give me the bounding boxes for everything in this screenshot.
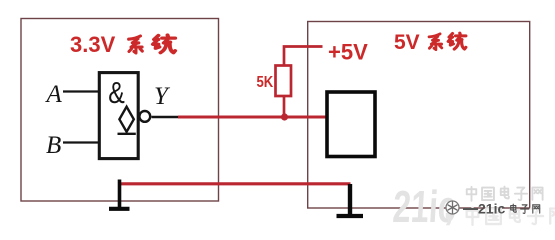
5V system box <box>308 22 530 209</box>
resistor R1 5K body <box>276 66 292 97</box>
input A wire <box>63 90 100 92</box>
input B wire <box>63 141 100 143</box>
svg-text:5V: 5V <box>394 31 420 54</box>
resistor top lead wire <box>284 47 323 67</box>
svg-text:B: B <box>46 132 61 159</box>
ground bus wire (red) <box>119 182 351 185</box>
ground GND1 <box>109 180 130 209</box>
svg-text:+5V: +5V <box>328 40 368 65</box>
3.3V system box <box>21 19 219 202</box>
junction node dot <box>281 113 288 120</box>
watermark star logo <box>446 201 459 214</box>
ground GND2 <box>337 184 364 216</box>
svg-text:&: & <box>108 75 125 109</box>
label 系统 (5V system) <box>429 33 466 50</box>
resistor bottom lead wire <box>283 96 286 117</box>
output wire black segment <box>152 116 181 118</box>
wire Y to 5V system (red) <box>178 116 327 119</box>
svg-text:A: A <box>45 81 63 108</box>
svg-text:21ic: 21ic <box>478 201 505 217</box>
watermark 电子网 dark <box>511 204 540 213</box>
NAND gate U1 body <box>99 73 138 159</box>
watermark 中国电子网 row1 <box>467 187 543 201</box>
watermark dash <box>463 208 478 210</box>
svg-text:3.3V: 3.3V <box>70 32 116 57</box>
watermark echo row2 <box>467 207 555 225</box>
open-drain diamond symbol <box>118 107 136 134</box>
svg-text:5K: 5K <box>257 74 274 91</box>
5V system input block <box>327 92 375 157</box>
output inversion bubble <box>139 111 150 122</box>
label 系统 (3.3V system) <box>129 35 176 53</box>
